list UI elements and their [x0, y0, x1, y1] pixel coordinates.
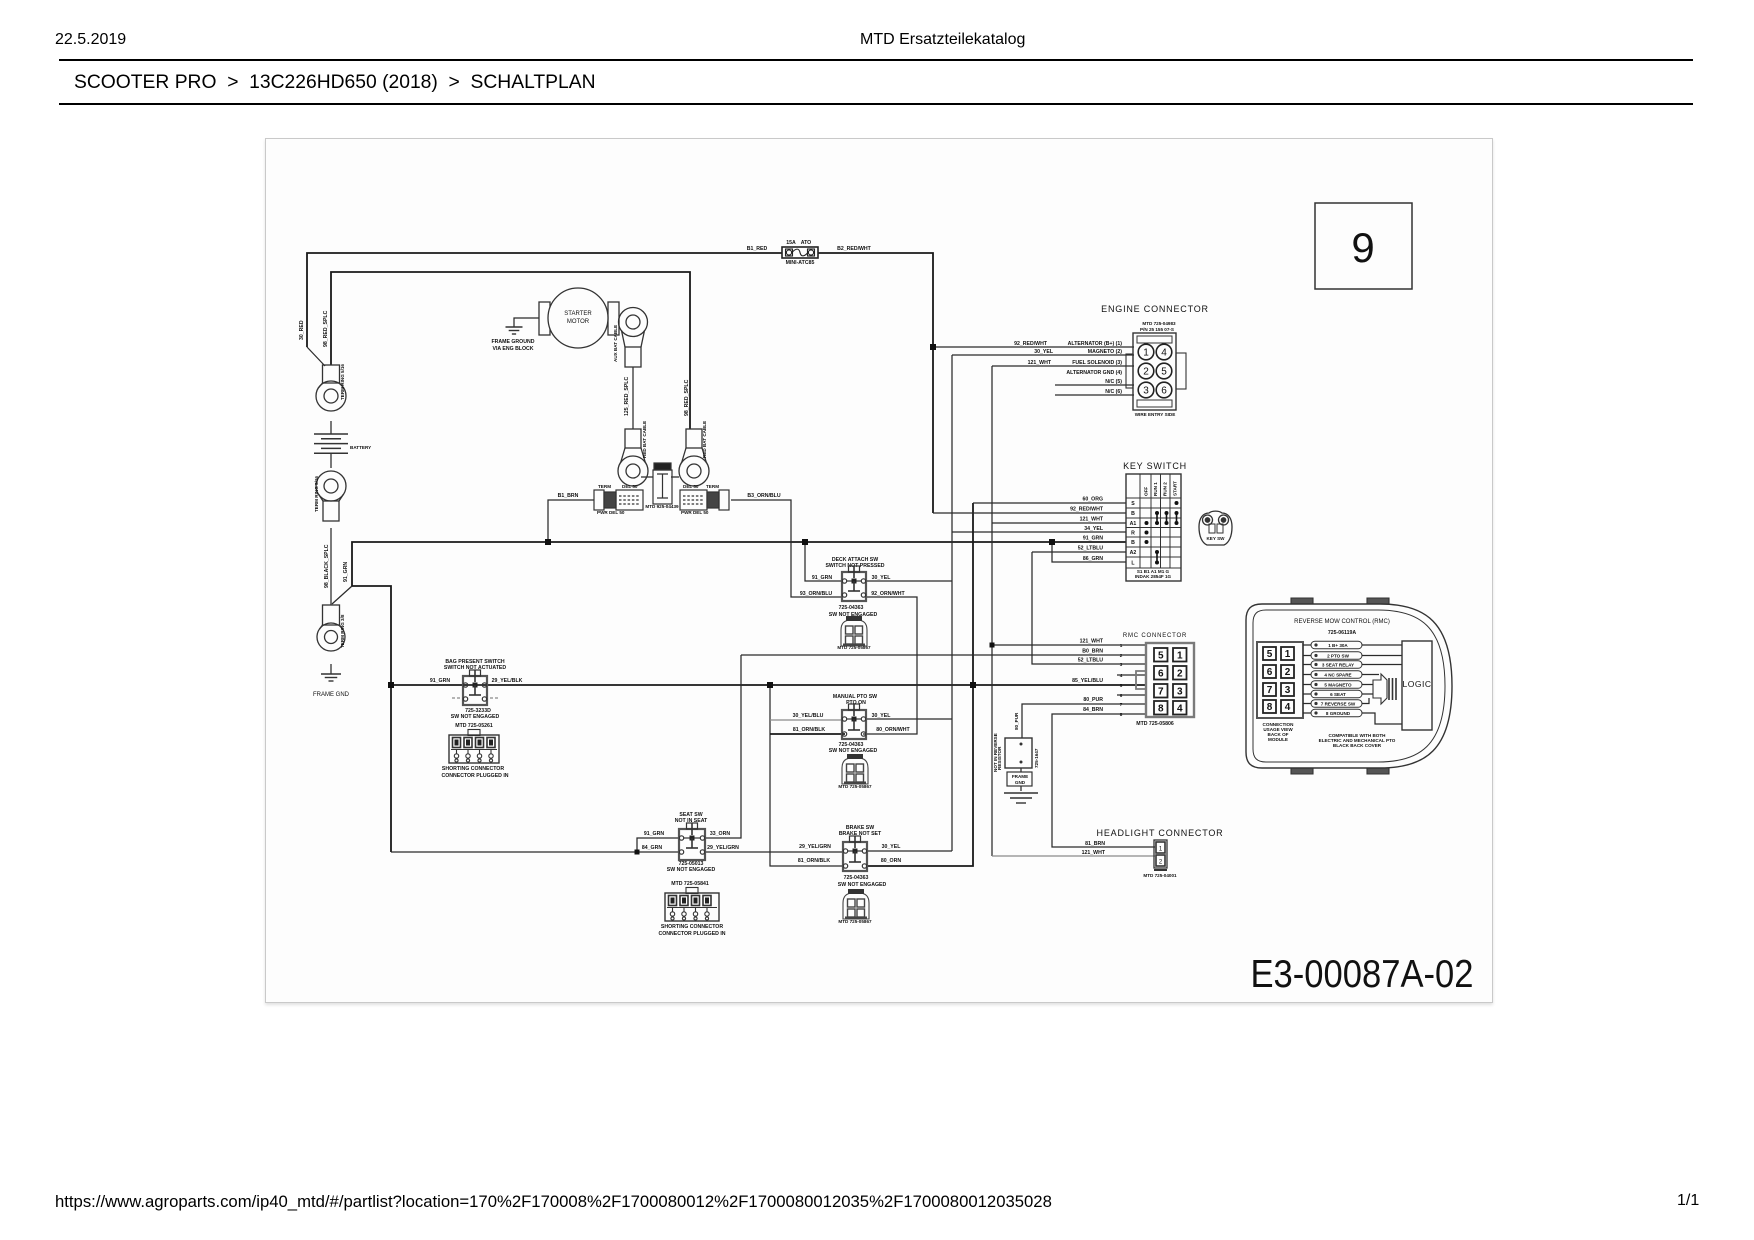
svg-text:7: 7 — [1267, 685, 1273, 696]
svg-text:4: 4 — [1285, 702, 1291, 713]
svg-text:2: 2 — [1177, 669, 1183, 680]
wire: PMC pin8 84_BRN to headlight 81_BRN — [1052, 714, 1155, 847]
svg-text:8: 8 — [1267, 702, 1273, 713]
PMC pin 1 — [1173, 648, 1187, 662]
ground frame gnd — [321, 674, 341, 681]
svg-text:91_GRN: 91_GRN — [430, 678, 450, 684]
svg-text:ALTERNATOR GND (4): ALTERNATOR GND (4) — [1066, 370, 1122, 376]
engine connector pin 1 — [1138, 344, 1154, 360]
PMC pin 5 — [1154, 648, 1168, 662]
svg-text:MTD 725-05841: MTD 725-05841 — [671, 881, 709, 887]
svg-text:GND: GND — [1015, 780, 1026, 785]
svg-text:B1_RED: B1_RED — [747, 246, 768, 252]
wire: diagonal 30_RED into ring crimp — [307, 347, 325, 366]
svg-text:TERM RING 5/16: TERM RING 5/16 — [314, 476, 319, 512]
engine connector pin 2 — [1138, 363, 1154, 379]
svg-text:KEY SWITCH: KEY SWITCH — [1123, 461, 1187, 471]
svg-text:81_ORN/BLK: 81_ORN/BLK — [798, 858, 831, 864]
svg-text:A1: A1 — [1130, 521, 1137, 527]
svg-text:MTD 725-05867: MTD 725-05867 — [837, 645, 871, 650]
svg-text:VIA ENG BLOCK: VIA ENG BLOCK — [492, 346, 533, 352]
RMC pin 5 — [1263, 647, 1276, 660]
wire: manual pto right to net — [866, 718, 952, 720]
svg-text:1: 1 — [1285, 649, 1291, 660]
svg-text:ATO: ATO — [801, 240, 811, 246]
svg-text:725-06119A: 725-06119A — [1328, 630, 1357, 636]
svg-text:1: 1 — [1159, 847, 1163, 853]
wire: brake right-top to net — [868, 850, 952, 852]
svg-text:7 REVERSE SW: 7 REVERSE SW — [1321, 702, 1356, 707]
node: junction at 933,347 — [930, 344, 936, 350]
connector manual pto — [842, 754, 868, 784]
svg-text:SHORTING CONNECTOR: SHORTING CONNECTOR — [442, 766, 504, 772]
engine connector pin 6 — [1156, 382, 1172, 398]
svg-text:SW NOT ENGAGED: SW NOT ENGAGED — [838, 882, 887, 888]
connector deck attach — [841, 616, 867, 646]
svg-text:5: 5 — [1267, 649, 1273, 660]
svg-text:5: 5 — [1120, 683, 1123, 688]
connector shorting bag — [449, 730, 499, 764]
wire: solenoid links — [641, 476, 679, 478]
svg-text:98_RED_SPLC: 98_RED_SPLC — [684, 379, 690, 416]
RMC pin 3 — [1281, 683, 1294, 696]
svg-text:725-04363: 725-04363 — [844, 875, 869, 881]
svg-text:92_ORN/WHT: 92_ORN/WHT — [871, 591, 905, 597]
svg-text:ALTERNATOR (B+) (1): ALTERNATOR (B+) (1) — [1068, 341, 1123, 347]
svg-text:AUX BAT CABLE: AUX BAT CABLE — [613, 325, 618, 362]
switch bag present — [463, 670, 487, 705]
svg-text:CONNECTOR PLUGGED IN: CONNECTOR PLUGGED IN — [441, 773, 508, 779]
svg-text:B1_BRN: B1_BRN — [558, 493, 579, 499]
PMC pin 6 — [1154, 666, 1168, 680]
svg-text:2: 2 — [1143, 367, 1149, 378]
frame gnd box — [1007, 772, 1032, 786]
svg-text:1: 1 — [1177, 651, 1183, 662]
wire: deck switch right to net — [866, 580, 952, 582]
svg-text:3 SEAT RELAY: 3 SEAT RELAY — [1322, 663, 1354, 668]
svg-text:93_ORN/BLU: 93_ORN/BLU — [800, 591, 833, 597]
svg-text:6 SEAT: 6 SEAT — [1330, 692, 1346, 697]
svg-text:MTD 725-05261: MTD 725-05261 — [455, 723, 493, 729]
starter solenoid fuse block — [653, 463, 672, 504]
svg-text:RED BAT CABLE: RED BAT CABLE — [702, 421, 707, 458]
svg-text:TERM: TERM — [706, 484, 719, 489]
svg-text:MINI-ATC85: MINI-ATC85 — [786, 260, 815, 266]
svg-text:5 MAGNETO: 5 MAGNETO — [1324, 683, 1352, 688]
svg-text:80_PUR: 80_PUR — [1014, 712, 1019, 730]
svg-text:B3_ORN/BLU: B3_ORN/BLU — [747, 493, 780, 499]
svg-text:MTD 725-05806: MTD 725-05806 — [1136, 721, 1174, 727]
wire: 29_YEL/GRN seat to brake — [705, 851, 843, 853]
wire: fuse to engine connector B2_RED/WHT — [818, 253, 933, 513]
svg-text:2: 2 — [1120, 653, 1123, 658]
svg-text:TERM RING 5/16: TERM RING 5/16 — [340, 364, 345, 400]
node: junction x770 — [767, 682, 773, 688]
svg-text:1: 1 — [1120, 643, 1123, 648]
connector brake — [843, 889, 869, 919]
svg-text:N/C (5): N/C (5) — [1105, 379, 1122, 385]
svg-text:S: S — [1131, 501, 1135, 507]
svg-text:MTD 725-04001: MTD 725-04001 — [1143, 873, 1177, 878]
svg-text:SHORTING CONNECTOR: SHORTING CONNECTOR — [661, 924, 723, 930]
wire: 92_ORN/WHT deck to pto 80_ORN/WHT — [863, 597, 917, 734]
headlight connector body — [1154, 840, 1167, 870]
connector shorting seat — [665, 888, 719, 922]
svg-text:33_ORN: 33_ORN — [710, 831, 730, 837]
svg-text:3: 3 — [1285, 685, 1291, 696]
wire: battery + to fuse, top feed B1_RED — [307, 253, 782, 347]
svg-text:R: R — [1131, 531, 1135, 537]
engine connector pin 5 — [1156, 363, 1172, 379]
wire: starter motor ground lead — [514, 318, 539, 327]
wire: PMC pin2 B0_BRN long row from deck loop — [705, 655, 1146, 838]
svg-text:MTD 725-04983: MTD 725-04983 — [1142, 321, 1176, 326]
svg-text:B: B — [1131, 511, 1135, 517]
svg-text:7: 7 — [1158, 687, 1164, 698]
svg-text:SW NOT ENGAGED: SW NOT ENGAGED — [829, 748, 878, 754]
svg-text:SW NOT ENGAGED: SW NOT ENGAGED — [667, 867, 716, 873]
wire: 91_GRN long run to key switch row B2 — [352, 542, 1126, 586]
svg-text:DEL 50: DEL 50 — [683, 484, 699, 489]
wire: engine N/C stubs — [1055, 385, 1134, 395]
terminal ring battery negative — [316, 471, 346, 521]
svg-text:PWR DEL 50: PWR DEL 50 — [681, 510, 709, 515]
RMC pin 1 — [1281, 647, 1294, 660]
engine connector pin 4 — [1156, 344, 1172, 360]
wire: PMC stub rows — [1117, 675, 1146, 695]
svg-text:START: START — [1173, 481, 1178, 496]
svg-text:MTD 725-05867: MTD 725-05867 — [838, 784, 872, 789]
wire: 30_YEL vertical net magneto/keyR/deck/pto/brake — [951, 355, 953, 851]
switch manual pto — [842, 704, 866, 739]
svg-text:92_RED/WHT: 92_RED/WHT — [1014, 341, 1048, 347]
wire: engine alternator row from junction — [933, 346, 1134, 348]
RMC wires to logic — [1362, 645, 1402, 675]
svg-text:BATTERY: BATTERY — [350, 445, 371, 450]
wire: 30_YEL magneto row — [952, 354, 1134, 356]
svg-text:OFF: OFF — [1144, 487, 1149, 496]
wire: battery cell stubs — [330, 421, 332, 468]
switch brake — [843, 836, 867, 871]
svg-text:2: 2 — [1285, 667, 1291, 678]
svg-text:125_RED_SPLC: 125_RED_SPLC — [624, 377, 630, 416]
resistor — [1005, 738, 1032, 768]
node: junction deck 91_GRN — [802, 539, 808, 545]
svg-text:80_ORN/WHT: 80_ORN/WHT — [876, 727, 910, 733]
wire: seat left-top jumper — [637, 838, 679, 852]
svg-text:MODULE: MODULE — [1268, 737, 1288, 742]
svg-text:6: 6 — [1161, 386, 1167, 397]
RMC pin 8 — [1263, 700, 1276, 713]
wire: fuel solenoid row — [992, 365, 1134, 367]
svg-text:B2_RED/WHT: B2_RED/WHT — [837, 246, 872, 252]
svg-text:29_YEL/BLK: 29_YEL/BLK — [492, 678, 523, 684]
svg-text:RUN 1: RUN 1 — [1153, 482, 1158, 496]
svg-text:FUEL SOLENOID (3): FUEL SOLENOID (3) — [1072, 360, 1122, 366]
RMC relay funnel — [1373, 674, 1396, 704]
svg-text:SW NOT ENGAGED: SW NOT ENGAGED — [451, 714, 500, 720]
wire: 84_GRN to seat switch — [391, 851, 679, 853]
RMC connector — [1257, 642, 1303, 718]
svg-text:E3-00087A-02: E3-00087A-02 — [1251, 953, 1474, 996]
terminal ring starter stud — [619, 308, 648, 368]
svg-text:1 B+ 30A: 1 B+ 30A — [1328, 643, 1348, 648]
svg-text:84_BRN: 84_BRN — [1083, 707, 1103, 713]
svg-text:8: 8 — [1158, 704, 1164, 715]
wire: key switch R row 34_YEL — [952, 531, 1126, 533]
svg-text:30_YEL/BLU: 30_YEL/BLU — [793, 713, 824, 719]
wire: 30_YEL/BLU grey into pto — [770, 719, 842, 721]
wire: bag present switch row to PMC 85_YEL/BLU — [391, 684, 1146, 686]
key symbol back view — [1199, 511, 1232, 545]
svg-text:3: 3 — [1120, 662, 1123, 667]
PMC connector body — [1136, 643, 1194, 717]
svg-text:30_YEL: 30_YEL — [872, 575, 892, 581]
PMC pin 8 — [1154, 701, 1168, 715]
svg-text:15A: 15A — [786, 240, 796, 246]
svg-text:725-1647: 725-1647 — [1034, 748, 1039, 768]
key switch contact dots — [1175, 501, 1179, 505]
svg-text:80_PUR: 80_PUR — [1083, 697, 1103, 703]
svg-text:121_WHT: 121_WHT — [1028, 360, 1052, 366]
key switch table — [1126, 474, 1181, 581]
svg-text:5: 5 — [1158, 651, 1164, 662]
svg-text:MOTOR: MOTOR — [567, 319, 590, 325]
svg-text:ENGINE CONNECTOR: ENGINE CONNECTOR — [1101, 304, 1209, 314]
wire: 91_GRN branch to bag switch loop — [352, 586, 391, 852]
engine connector body — [1126, 333, 1186, 410]
svg-text:WIRE ENTRY SIDE: WIRE ENTRY SIDE — [1135, 412, 1176, 417]
svg-text:92_RED/WHT: 92_RED/WHT — [1070, 507, 1104, 513]
svg-text:1: 1 — [1143, 348, 1149, 359]
svg-text:NOT IN REVERSE: NOT IN REVERSE — [993, 733, 998, 772]
svg-text:91_GRN: 91_GRN — [644, 831, 664, 837]
svg-text:FRAME GROUND: FRAME GROUND — [492, 339, 535, 345]
svg-text:52_LTBLU: 52_LTBLU — [1078, 658, 1104, 664]
svg-text:60_ORG: 60_ORG — [1083, 497, 1103, 503]
svg-text:81_BRN: 81_BRN — [1085, 841, 1105, 847]
wire: PMC pin1 121_WHT row — [992, 644, 1146, 646]
node: junction 1052,542 — [1049, 539, 1055, 545]
svg-text:DEL 50: DEL 50 — [622, 484, 638, 489]
wire: ring to frame gnd stub — [330, 664, 332, 674]
wire: key B row 92_RED/WHT — [933, 512, 1126, 514]
svg-text:121_WHT: 121_WHT — [1082, 850, 1106, 856]
wire: 91_GRN branch to deck switch — [805, 542, 842, 581]
RMC pin 4 — [1281, 700, 1294, 713]
svg-text:RUN 2: RUN 2 — [1163, 482, 1168, 496]
svg-text:REVERSE MOW CONTROL (RMC): REVERSE MOW CONTROL (RMC) — [1294, 619, 1390, 625]
wire: key S net x973 down to brake 80_ORN — [868, 503, 973, 866]
svg-text:HEADLIGHT CONNECTOR: HEADLIGHT CONNECTOR — [1097, 828, 1224, 838]
svg-text:86_GRN: 86_GRN — [1083, 556, 1103, 562]
terminal ring battery positive — [316, 365, 346, 411]
svg-text:6: 6 — [1120, 693, 1123, 698]
svg-text:TERM RING 3/8: TERM RING 3/8 — [340, 614, 345, 648]
connector power left — [594, 490, 643, 510]
wire: battery - splice 98_BLACK_SPLC — [330, 528, 332, 605]
svg-text:RED BAT CABLE: RED BAT CABLE — [642, 421, 647, 458]
terminal ring frame ground — [317, 605, 345, 651]
wire: B1_BRN to PTO power connector — [548, 500, 594, 542]
wire: B3_ORN/BLU connector to deck switch — [731, 500, 842, 597]
svg-text:INDAK 2854F 1G: INDAK 2854F 1G — [1135, 574, 1172, 579]
node: junction x973 on bag row — [970, 682, 976, 688]
svg-text:29_YEL/GRN: 29_YEL/GRN — [707, 845, 739, 851]
ground resistor — [1004, 793, 1038, 803]
PMC pin 4 — [1173, 701, 1187, 715]
svg-text:4: 4 — [1120, 673, 1123, 678]
svg-text:MTD 725-05867: MTD 725-05867 — [838, 919, 872, 924]
wire: key L row 86_GRN — [1052, 542, 1126, 562]
RMC pin 6 — [1263, 665, 1276, 678]
svg-text:121_WHT: 121_WHT — [1080, 639, 1104, 645]
engine connector pin 3 — [1138, 382, 1154, 398]
svg-text:34_YEL: 34_YEL — [1084, 526, 1104, 532]
svg-text:N/C (6): N/C (6) — [1105, 389, 1122, 395]
svg-text:KEY SW: KEY SW — [1206, 536, 1225, 541]
wire: diagonal 91_GRN from splice — [332, 586, 352, 604]
svg-text:L: L — [1131, 561, 1135, 567]
svg-text:91_GRN: 91_GRN — [343, 562, 349, 582]
svg-text:TERM: TERM — [598, 484, 611, 489]
svg-text:MTD 925-04439: MTD 925-04439 — [645, 504, 679, 509]
svg-text:PWR DEL 50: PWR DEL 50 — [597, 510, 625, 515]
svg-text:98_BLACK_SPLC: 98_BLACK_SPLC — [324, 544, 330, 588]
RMC pin 2 — [1281, 665, 1294, 678]
switch seat — [679, 823, 705, 860]
svg-text:30_YEL: 30_YEL — [1034, 349, 1054, 355]
wire: resistor to ground — [1020, 768, 1022, 791]
RMC pin pills — [1311, 641, 1362, 649]
svg-text:85_YEL/BLU: 85_YEL/BLU — [1072, 678, 1103, 684]
svg-text:3: 3 — [1177, 687, 1183, 698]
terminal ring solenoid left — [618, 429, 648, 486]
fuse 15A ATO — [782, 247, 818, 258]
svg-text:30_RED: 30_RED — [299, 320, 305, 340]
wire: headlight 121_WHT row — [992, 855, 1155, 857]
wire: key A2 row 52_LTBLU to PMC pin3 — [1032, 552, 1146, 664]
ground at starter motor — [506, 327, 523, 334]
battery BATTERY — [314, 433, 348, 435]
svg-text:RMC CONNECTOR: RMC CONNECTOR — [1123, 633, 1187, 639]
svg-text:CONNECTOR PLUGGED IN: CONNECTOR PLUGGED IN — [658, 931, 725, 937]
svg-text:LOGIC: LOGIC — [1403, 679, 1432, 689]
svg-text:84_GRN: 84_GRN — [642, 845, 662, 851]
svg-text:STARTER: STARTER — [564, 311, 592, 317]
svg-text:30_YEL: 30_YEL — [872, 713, 892, 719]
node: junction bag loop — [388, 682, 394, 688]
node: junction 992,645 — [990, 643, 995, 648]
svg-text:2: 2 — [1159, 860, 1163, 866]
wire: starter to lower ring 125_RED_SPLC — [632, 367, 634, 429]
svg-text:30_YEL: 30_YEL — [882, 844, 902, 850]
svg-text:91_GRN: 91_GRN — [1083, 536, 1103, 542]
svg-text:52_LTBLU: 52_LTBLU — [1078, 546, 1104, 552]
svg-text:8: 8 — [1120, 712, 1123, 717]
svg-text:FRAME GND: FRAME GND — [313, 692, 350, 698]
PMC pin 7 — [1154, 684, 1168, 698]
wire: 121_WHT net vertical x992 — [991, 366, 993, 856]
wire: key S row 60_ORG — [973, 502, 1126, 504]
svg-text:3: 3 — [1143, 386, 1149, 397]
svg-text:29_YEL/GRN: 29_YEL/GRN — [799, 844, 831, 850]
svg-text:121_WHT: 121_WHT — [1080, 517, 1104, 523]
wire: key A1 row 121_WHT — [992, 522, 1126, 524]
svg-text:9: 9 — [1351, 224, 1374, 271]
terminal ring solenoid right — [679, 429, 709, 486]
wire: bag out vertical x770 — [770, 685, 843, 866]
connector power right — [680, 490, 729, 510]
svg-text:4: 4 — [1177, 704, 1183, 715]
svg-text:91_GRN: 91_GRN — [812, 575, 832, 581]
node: junction 637,852 — [635, 850, 640, 855]
svg-text:A2: A2 — [1130, 550, 1137, 556]
svg-text:P/N 25 155 07-S: P/N 25 155 07-S — [1140, 327, 1174, 332]
svg-text:725-04363: 725-04363 — [839, 605, 864, 611]
svg-text:7: 7 — [1120, 702, 1123, 707]
svg-text:80_ORN: 80_ORN — [881, 858, 901, 864]
svg-text:81_ORN/BLK: 81_ORN/BLK — [793, 727, 826, 733]
svg-text:B: B — [1131, 540, 1135, 546]
PMC pin 3 — [1173, 684, 1187, 698]
svg-text:4: 4 — [1161, 348, 1167, 359]
svg-text:2 PTO SW: 2 PTO SW — [1327, 654, 1350, 659]
svg-text:4 NC SPARE: 4 NC SPARE — [1324, 673, 1351, 678]
svg-text:6: 6 — [1158, 669, 1164, 680]
RMC pin 7 — [1263, 683, 1276, 696]
svg-text:98_RED_SPLC: 98_RED_SPLC — [323, 310, 329, 347]
wire: 81_ORN/BLK into pto bottom — [770, 733, 845, 735]
node: junction B1_BRN — [545, 539, 551, 545]
PMC pin 2 — [1173, 666, 1187, 680]
svg-text:8 GROUND: 8 GROUND — [1326, 711, 1351, 716]
starter motor — [539, 288, 619, 348]
svg-text:B0_BRN: B0_BRN — [1082, 649, 1103, 655]
svg-text:PTO ON: PTO ON — [846, 700, 866, 706]
svg-text:6: 6 — [1267, 667, 1273, 678]
RMC reverse mow control module outline — [1246, 598, 1452, 774]
svg-text:BLACK BACK COVER: BLACK BACK COVER — [1333, 743, 1382, 748]
svg-text:MAGNETO (2): MAGNETO (2) — [1088, 349, 1122, 355]
wire: battery + splice 98_RED_SPLC — [331, 272, 690, 429]
RMC logic box — [1402, 641, 1432, 730]
wire: PMC pin7 80_PUR to resistor — [1022, 704, 1146, 738]
switch deck attach — [842, 566, 866, 601]
page number box 9 — [1315, 203, 1412, 289]
svg-text:5: 5 — [1161, 367, 1167, 378]
svg-text:FRAME: FRAME — [1012, 774, 1028, 779]
